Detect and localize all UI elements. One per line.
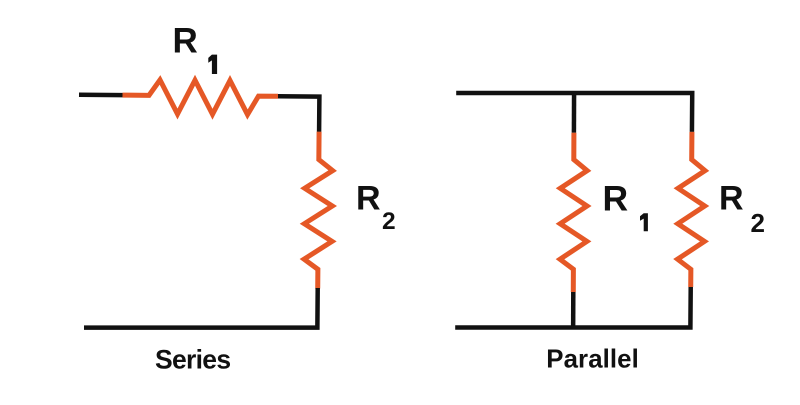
label R1 (series): subscript 1 xyxy=(208,55,217,74)
wire: parallel top rail with right corner xyxy=(456,93,692,132)
svg-text:R: R xyxy=(603,179,629,219)
svg-text:R: R xyxy=(719,180,744,218)
wire: parallel bottom rail with right corner xyxy=(455,287,691,328)
resistor R1 (series, horizontal zigzag) xyxy=(123,80,279,115)
svg-text:R: R xyxy=(356,180,381,218)
svg-text:Series: Series xyxy=(155,345,230,375)
resistor R2 (series, vertical zigzag) xyxy=(304,132,333,289)
wire: parallel bottom stub from R1 xyxy=(571,292,576,328)
wire: series top-right corner xyxy=(278,96,319,132)
svg-text:R: R xyxy=(173,22,198,61)
label R1 (parallel): subscript 1 xyxy=(640,213,648,231)
resistor R2 (parallel, vertical zigzag) xyxy=(678,132,705,287)
wire: series top-left lead xyxy=(79,93,123,98)
svg-text:Parallel: Parallel xyxy=(546,346,639,374)
resistor R1 (parallel, vertical zigzag) xyxy=(560,133,587,292)
svg-text:2: 2 xyxy=(751,208,765,238)
svg-text:2: 2 xyxy=(382,208,396,235)
wire: parallel top drop to R1 xyxy=(572,93,577,133)
wire: series bottom with corner xyxy=(84,288,318,328)
